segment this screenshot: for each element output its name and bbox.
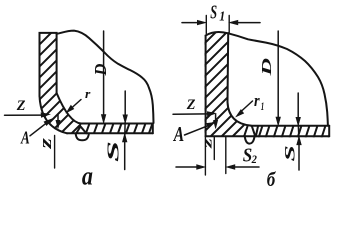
svg-text:Z: Z [16, 98, 26, 114]
flanged corner outer curve (a) [40, 96, 68, 133]
shell wall (a) hatching [25, 16, 200, 134]
dimension S2 line left (b) [176, 166, 198, 168]
shell wall (b) outline left edge [205, 36, 207, 137]
bottom plate (b) right edge [328, 126, 330, 136]
weld root pointer arrow (a) [57, 115, 59, 122]
dimension s (b) lower arrow line [298, 145, 300, 170]
svg-text:Z: Z [186, 97, 196, 113]
weld root pointer arrowhead (b) [214, 120, 218, 128]
svg-text:A: A [173, 123, 184, 146]
bottom plate (a) top edge [81, 123, 153, 125]
weld fillet r1 curve (b) [228, 102, 252, 126]
svg-text:а: а [82, 163, 93, 188]
dimension S (a) lower arrow line [124, 142, 126, 170]
shell wall (a) outline [40, 33, 57, 96]
leader arrowhead Z (b) [207, 112, 216, 117]
label r1 (b) [254, 92, 264, 114]
dimension D (b) arrowhead [276, 117, 281, 126]
bottom plate (a) hatching [86, 122, 154, 135]
svg-text:2: 2 [251, 153, 258, 166]
shell wall (b) top curve [206, 32, 229, 36]
svg-text:z: z [200, 138, 215, 149]
svg-text:r: r [254, 92, 260, 110]
svg-text:1: 1 [261, 102, 264, 114]
dimension D (a) arrowhead [101, 115, 106, 124]
svg-text:б: б [267, 169, 276, 188]
weld root bulge below plate (a) [76, 134, 89, 141]
leader line r (a) [71, 100, 81, 109]
dimension s (b) upper arrowhead [296, 117, 301, 125]
shell wall (b) right edge [227, 33, 230, 102]
svg-text:S: S [104, 141, 122, 162]
dimension S1 left arrowhead (b) [197, 20, 206, 25]
dimension S (a) upper arrow line [124, 91, 126, 137]
dimension S2 label (b) [243, 144, 258, 167]
dimension S (a) lower arrowhead [122, 134, 127, 142]
dimension D (b) line [277, 31, 279, 122]
dimension S1 label (b) [210, 0, 225, 24]
leader line Z (a) [5, 114, 43, 116]
dimension S1 line right (b) [237, 22, 260, 24]
dimension s (b) lower arrowhead [297, 136, 302, 144]
shell wall (b) hatching [196, 16, 338, 136]
svg-text:S: S [282, 145, 298, 161]
dimension S1 extension lines (b) [206, 16, 229, 34]
leader arrowhead A (b) [207, 122, 215, 127]
dimension s (b) upper arrow line [297, 93, 300, 138]
dimension S (a) upper arrowhead [123, 115, 128, 123]
leader arrowhead Z (a) [41, 113, 50, 118]
bottom plate (b) bottom edge [206, 135, 330, 137]
svg-text:z: z [36, 138, 55, 150]
leader line r1 (b) [241, 101, 253, 112]
weld seam V groove (b) [245, 127, 255, 134]
shell outer contour curve (a) [57, 31, 154, 123]
bottom plate (a) right edge [152, 124, 154, 134]
dimension S2 left arrowhead (b) [197, 165, 206, 170]
leader arrowhead A (a) [44, 119, 52, 126]
dimension S2 line right (b) [234, 166, 260, 168]
svg-text:1: 1 [219, 9, 225, 24]
leader line A (a) [30, 122, 48, 136]
weld root bulge below plate (b) [245, 135, 255, 144]
leader arrowhead r (a) [66, 105, 74, 112]
dimension z extension lines (b) [205, 137, 225, 175]
bottom plate (b) top edge [251, 125, 329, 127]
dimension D (a) line [103, 31, 105, 119]
bottom plate (a) bottom edge [67, 132, 153, 134]
dimension S1 right arrowhead (b) [229, 20, 238, 25]
weld root pointer arrowhead (a) [56, 120, 60, 128]
svg-text:r: r [85, 86, 91, 100]
svg-text:D: D [259, 58, 275, 77]
dimension z extension line (a) [54, 136, 56, 169]
leader line A (b) [185, 125, 211, 135]
flanged corner inner fillet r (a) [57, 93, 81, 124]
weld root pointer arrow (b) [215, 115, 217, 122]
svg-text:A: A [20, 129, 30, 148]
dimension S2 right arrowhead (b) [226, 165, 235, 170]
svg-text:D: D [91, 64, 110, 77]
leader line Z (b) [173, 113, 208, 115]
leader arrowhead r1 (b) [236, 110, 244, 117]
weld seam V groove (a) [76, 126, 86, 133]
dimension S1 line left (b) [182, 22, 198, 24]
shell outer contour curve (b) [228, 33, 328, 125]
bottom plate (b) hatching [234, 124, 334, 138]
svg-text:S: S [210, 0, 217, 23]
